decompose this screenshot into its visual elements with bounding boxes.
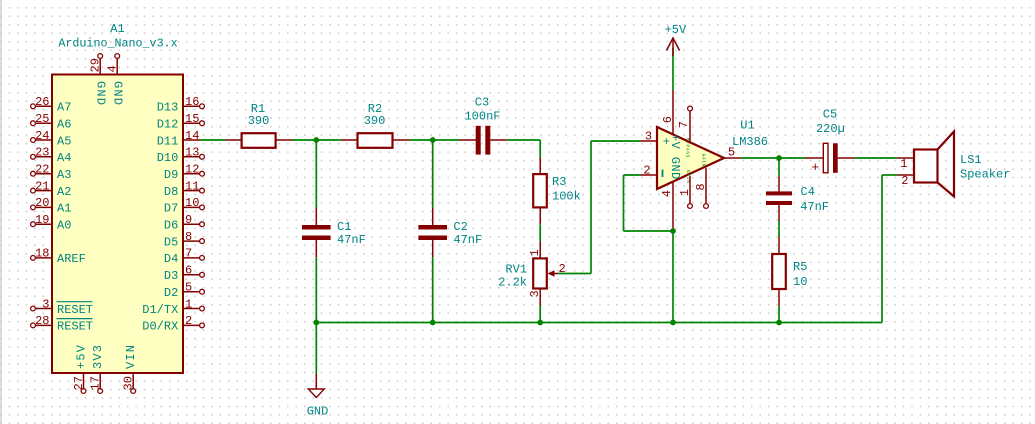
pin 6 D3 (A1 right) [164,264,205,284]
svg-text:2: 2 [643,163,650,177]
pin 16 D13 (A1 right) [157,95,205,115]
svg-text:220µ: 220µ [816,122,845,136]
pin 30 VIN (A1 bottom) [122,344,138,394]
capacitor C1 [302,140,331,323]
svg-text:3V3: 3V3 [91,344,105,369]
svg-text:+: + [811,160,819,175]
svg-text:LM386: LM386 [732,135,768,149]
pin 20 A1 (A1 left) [31,196,72,216]
svg-text:C5: C5 [823,108,837,122]
pin 4 GND (A1 top) [106,54,125,107]
svg-text:47nF: 47nF [453,233,482,247]
svg-text:AREF: AREF [57,252,86,266]
node junction output/C4 [776,155,782,161]
svg-text:A0: A0 [57,219,71,233]
svg-text:D9: D9 [164,168,178,182]
svg-text:11: 11 [185,179,199,193]
svg-text:LS1: LS1 [960,153,982,167]
pin 4 op-amp GND [660,182,674,231]
svg-text:1: 1 [678,189,692,196]
svg-text:14: 14 [185,129,199,143]
svg-text:3: 3 [645,129,652,143]
svg-text:15: 15 [185,112,199,126]
svg-text:+V GND: +V GND [668,134,682,180]
svg-text:3: 3 [528,290,542,297]
ground symbol GND [308,374,324,398]
capacitor C4 [766,158,792,221]
svg-text:A5: A5 [57,134,71,148]
wire V+ to +5V [672,48,674,90]
pin 1 D1/TX (A1 right) [142,297,204,317]
wire R2 to C3 [410,139,460,141]
pin 12 D9 (A1 right) [164,163,205,183]
svg-text:Speaker: Speaker [960,167,1010,181]
svg-text:U1: U1 [740,119,754,133]
pin 21 A2 (A1 left) [31,179,72,199]
wire R3 to RV1 [539,224,541,241]
pin 1 speaker [898,157,915,171]
svg-text:13: 13 [185,146,199,160]
svg-text:D11: D11 [157,134,179,148]
svg-text:C4: C4 [801,185,815,199]
pin 5 op-amp output [724,146,741,160]
svg-text:22: 22 [35,163,49,177]
capacitor C2 [418,140,447,323]
wire D11 to R1 [200,139,226,141]
svg-text:D13: D13 [157,101,179,115]
svg-text:A2: A2 [57,185,71,199]
svg-text:10: 10 [793,275,807,289]
svg-text:RV1: RV1 [505,262,527,276]
svg-text:8: 8 [185,230,192,244]
capacitor C3 [460,126,508,155]
svg-text:RESET: RESET [57,303,93,317]
svg-text:D10: D10 [157,151,179,165]
wire R5 to rail [778,306,780,323]
svg-text:VIN: VIN [124,344,138,369]
svg-text:47nF: 47nF [800,200,829,214]
resistor R5 [772,237,786,306]
capacitor C5 polarized [805,143,855,175]
svg-text:A3: A3 [57,168,71,182]
pin 6 op-amp V+ [661,90,675,135]
svg-text:25: 25 [35,112,49,126]
node junction main/C2 [430,137,436,143]
power symbol +5V [667,38,680,56]
svg-text:GND: GND [307,404,329,418]
svg-text:C3: C3 [475,95,489,109]
svg-text:D6: D6 [164,219,178,233]
svg-text:Arduino_Nano_v3.x: Arduino_Nano_v3.x [58,36,177,50]
svg-text:18: 18 [35,247,49,261]
svg-text:4: 4 [106,65,120,72]
pin 2 D0/RX (A1 right) [142,314,204,334]
svg-text:3: 3 [42,297,49,311]
svg-text:10: 10 [185,196,199,210]
wire op-amp -input feedback to ground net [624,175,674,231]
wire output to C5 [741,157,805,159]
svg-text:C1: C1 [337,220,351,234]
node junction rail/R5 [776,320,782,326]
svg-text:30: 30 [122,376,136,390]
svg-text:GND: GND [93,81,107,106]
wire C3 to divider corner [508,140,541,157]
pin 1 op-amp GAIN unconnected [678,176,693,209]
svg-text:D5: D5 [164,235,178,249]
svg-text:4: 4 [660,190,674,197]
svg-text:R5: R5 [793,260,807,274]
svg-text:29: 29 [89,58,103,72]
svg-text:GAIN: GAIN [701,154,707,167]
pin 8 D5 (A1 right) [164,230,205,250]
svg-text:A1: A1 [57,202,71,216]
pin 2 speaker [898,174,915,188]
svg-text:9: 9 [185,213,192,227]
svg-text:12: 12 [185,163,199,177]
svg-text:19: 19 [35,213,49,227]
pin 3 RESET (A1 left) [31,297,93,317]
svg-text:C2: C2 [453,220,467,234]
svg-text:2: 2 [185,314,192,328]
speaker LS1 [914,132,954,197]
pin 19 A0 (A1 left) [31,213,72,233]
svg-text:28: 28 [35,314,49,328]
svg-text:27: 27 [72,376,86,390]
svg-text:D7: D7 [164,202,178,216]
svg-text:20: 20 [35,196,49,210]
svg-text:21: 21 [35,179,49,193]
node junction op-amp GND/feedback [670,228,676,234]
svg-text:A1: A1 [110,22,124,36]
component A1 Arduino_Nano_v3.x [52,75,183,374]
wire speaker pin2 return to rail [882,175,898,323]
svg-text:1: 1 [528,249,542,256]
wire ground rail [316,322,882,324]
wire R1 to R2 [292,139,341,141]
pin 28 RESET (A1 left) [31,314,93,334]
svg-text:5: 5 [728,146,735,160]
pin 7 op-amp BYPASS unconnected [677,106,692,143]
pin 15 D12 (A1 right) [157,112,205,132]
pin 11 D8 (A1 right) [164,179,205,199]
svg-text:2.2k: 2.2k [498,275,527,289]
svg-text:D3: D3 [164,269,178,283]
svg-text:A4: A4 [57,151,71,165]
pin 22 A3 (A1 left) [31,163,72,183]
pin 7 D4 (A1 right) [164,247,205,267]
wire op-amp GND to rail [672,231,674,323]
resistor R1 [226,133,293,148]
svg-text:D2: D2 [164,286,178,300]
svg-text:D8: D8 [164,185,178,199]
pin 26 A7 (A1 left) [31,95,72,115]
node junction rail/C1 [313,320,319,326]
wire C5 to speaker [855,157,898,159]
svg-text:100nF: 100nF [464,110,500,124]
svg-text:R3: R3 [552,175,566,189]
wire RV1 wiper to op-amp +input [558,141,640,274]
pin 17 3V3 (A1 bottom) [89,344,105,394]
svg-text:390: 390 [248,114,270,128]
pin 29 GND (A1 top) [89,54,108,107]
pin 25 A6 (A1 left) [31,112,72,132]
svg-text:47nF: 47nF [337,233,366,247]
svg-text:23: 23 [35,146,49,160]
potentiometer RV1 [528,241,566,305]
pin 10 D7 (A1 right) [164,196,205,216]
svg-text:24: 24 [35,129,49,143]
svg-text:GND: GND [110,81,124,106]
svg-text:17: 17 [89,376,103,390]
svg-text:390: 390 [364,114,386,128]
pin 18 AREF (A1 left) [31,247,86,267]
svg-text:26: 26 [35,95,49,109]
svg-text:D0/RX: D0/RX [142,320,178,334]
svg-text:8: 8 [694,183,708,190]
pin 27 +5V (A1 bottom) [72,344,88,394]
pin 8 op-amp GAIN unconnected [694,168,709,209]
svg-text:D12: D12 [157,118,179,132]
node junction rail/RV1 [537,320,543,326]
svg-text:D1/TX: D1/TX [142,303,178,317]
pin 24 A5 (A1 left) [31,129,72,149]
wire RV1 pin3 to ground rail [539,306,541,323]
pin 5 D2 (A1 right) [164,281,205,301]
pin 9 D6 (A1 right) [164,213,205,233]
svg-text:6: 6 [185,264,192,278]
pin 14 D11 (A1 right) [157,129,200,149]
svg-text:+5V: +5V [74,344,88,369]
node junction rail/C2 [430,320,436,326]
pin 23 A4 (A1 left) [31,146,72,166]
wire C4 to R5 [778,221,780,237]
svg-text:D4: D4 [164,252,178,266]
node junction main/C1 [313,137,319,143]
pin 2 op-amp -input [640,163,657,177]
resistor R3 [533,157,547,224]
svg-text:2: 2 [901,174,908,188]
pin 13 D10 (A1 right) [157,146,205,166]
svg-text:7: 7 [185,247,192,261]
node junction rail/op-amp GND [670,320,676,326]
svg-text:6: 6 [661,116,675,123]
svg-text:RESET: RESET [57,320,93,334]
svg-text:+5V: +5V [665,23,687,37]
svg-text:A6: A6 [57,118,71,132]
svg-text:7: 7 [677,121,691,128]
svg-text:1: 1 [900,157,907,171]
resistor R2 [341,133,410,148]
svg-text:16: 16 [185,95,199,109]
svg-text:A7: A7 [57,101,71,115]
op-amp U1 LM386 triangle body [657,127,724,189]
svg-text:5: 5 [185,281,192,295]
pin 3 op-amp +input [640,129,657,143]
svg-text:100k: 100k [552,189,581,203]
wire rail to GND symbol [315,323,317,375]
svg-text:1: 1 [185,297,192,311]
